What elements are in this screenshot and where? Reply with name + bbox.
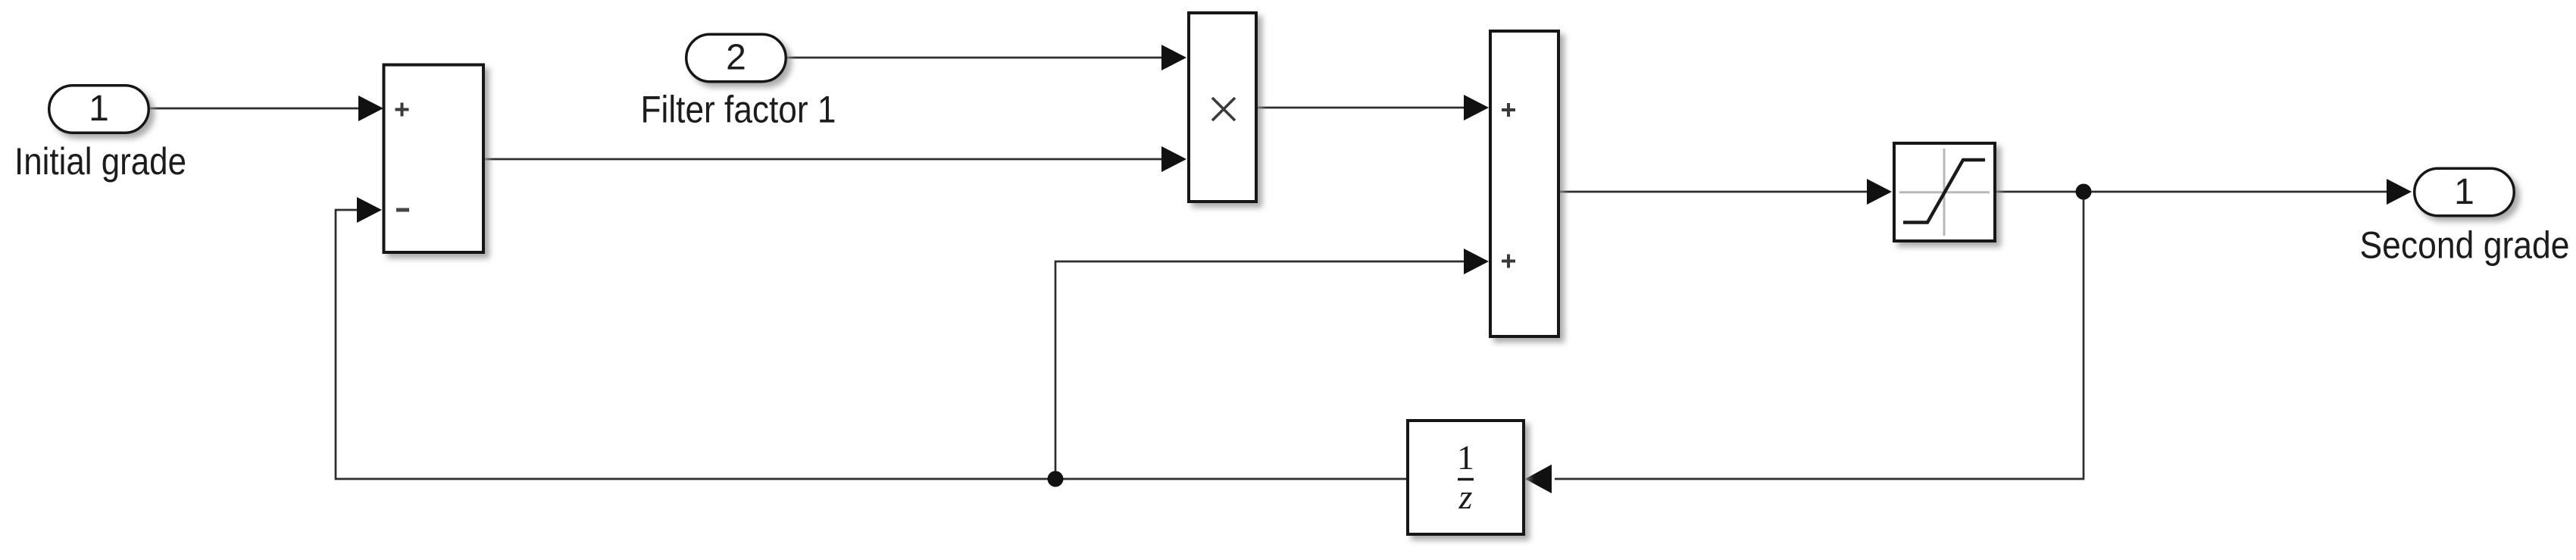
svg-text:1: 1 xyxy=(2454,172,2474,212)
svg-text:z: z xyxy=(1458,477,1473,516)
svg-text:Initial grade: Initial grade xyxy=(14,140,186,183)
svg-text:1: 1 xyxy=(1457,438,1474,477)
svg-text:Second grade: Second grade xyxy=(2360,224,2570,267)
svg-text:Filter factor 1: Filter factor 1 xyxy=(641,89,836,131)
svg-text:1: 1 xyxy=(89,89,109,129)
svg-text:2: 2 xyxy=(726,38,746,78)
